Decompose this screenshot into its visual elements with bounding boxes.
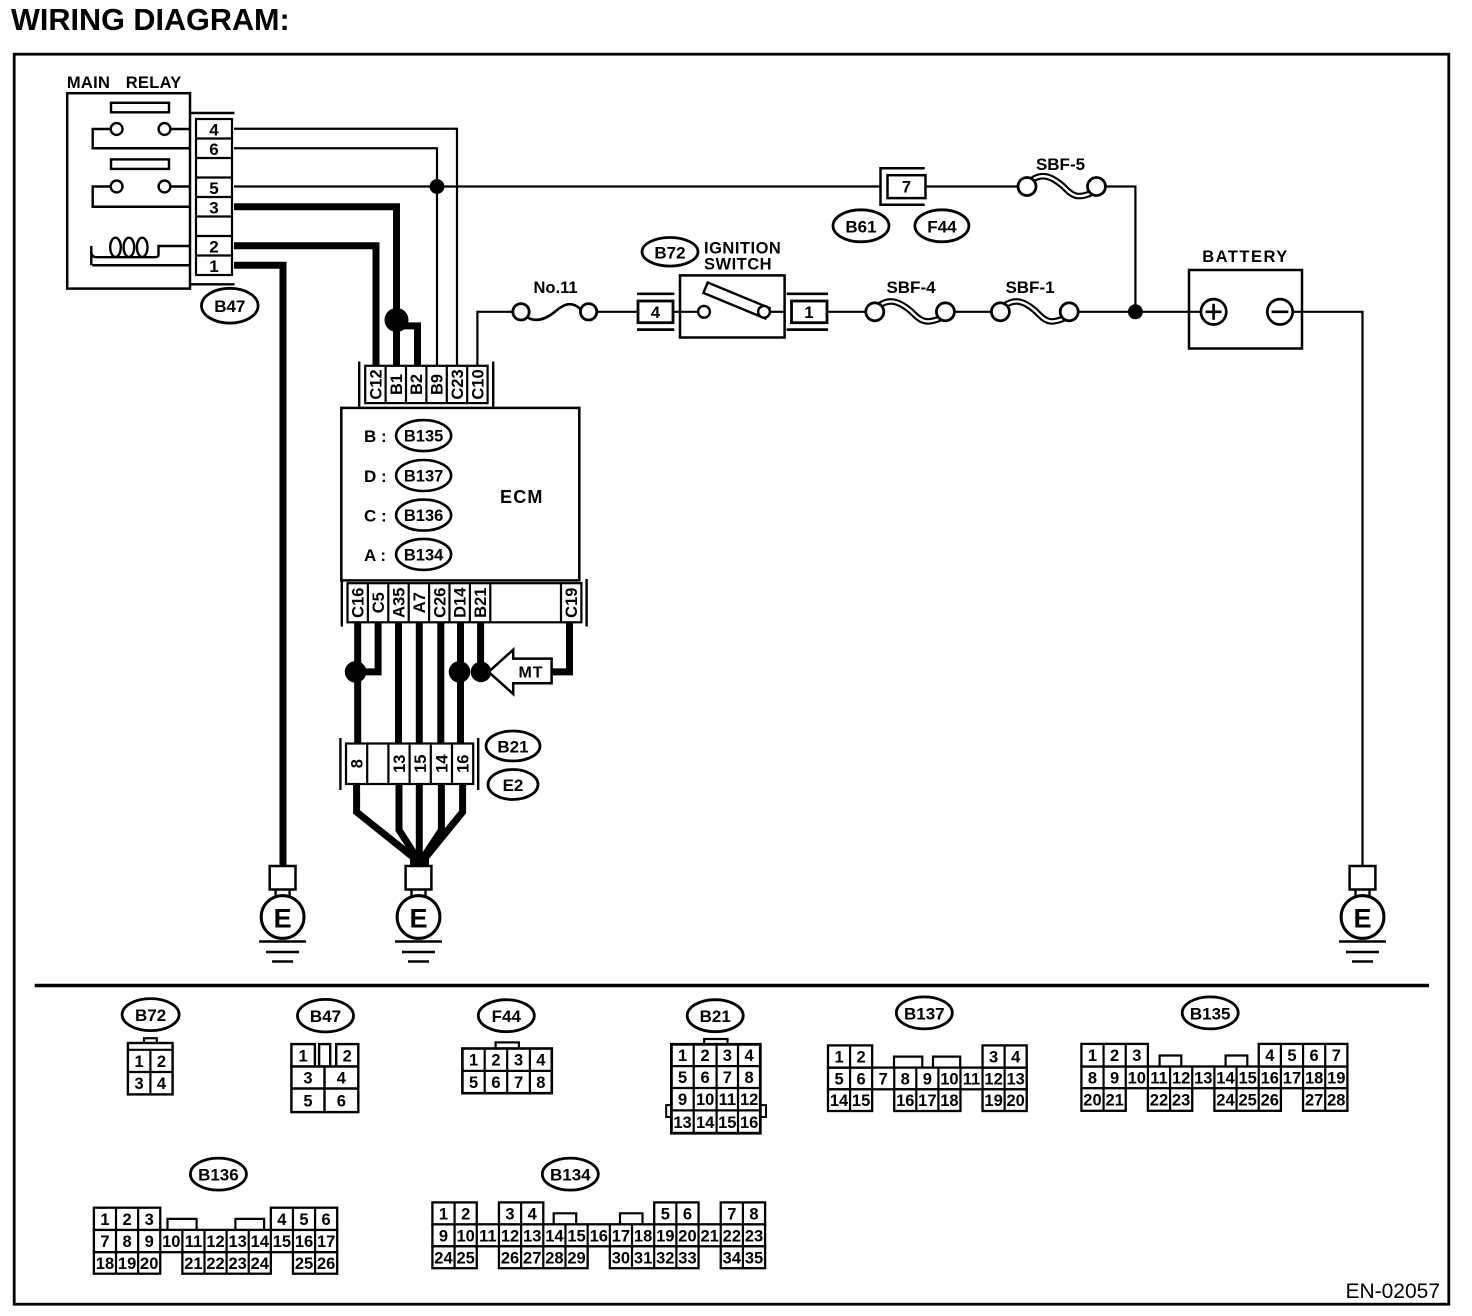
svg-text:20: 20 (140, 1255, 158, 1273)
svg-text:12: 12 (501, 1227, 519, 1245)
svg-text:19: 19 (984, 1092, 1002, 1110)
svg-text:2: 2 (209, 237, 218, 256)
ECM connector ref C : B136 (364, 500, 451, 531)
wire ignition switch to SBF-4 (828, 311, 866, 313)
svg-text:8: 8 (749, 1205, 758, 1223)
connector label B21 (486, 731, 540, 761)
svg-text:11: 11 (1150, 1069, 1167, 1087)
svg-text:B :: B : (364, 427, 387, 446)
svg-text:C5: C5 (370, 592, 388, 613)
svg-text:22: 22 (1150, 1092, 1168, 1110)
fuse 7 holder (881, 167, 926, 206)
svg-text:22: 22 (723, 1227, 741, 1245)
svg-text:21: 21 (1105, 1092, 1123, 1110)
svg-text:MT: MT (518, 664, 543, 681)
svg-text:9: 9 (678, 1091, 687, 1109)
junction D14 (449, 661, 471, 683)
svg-text:13: 13 (673, 1114, 691, 1132)
connector B135 pinout (1081, 1044, 1347, 1111)
svg-text:10: 10 (162, 1233, 180, 1251)
svg-text:B21: B21 (700, 1007, 731, 1026)
wire E2 pin 14 to ground (423, 784, 441, 866)
wire relay pin 3 to ECM B1 (234, 207, 397, 366)
svg-text:19: 19 (1327, 1069, 1345, 1087)
svg-text:27: 27 (523, 1249, 541, 1267)
svg-text:4: 4 (157, 1075, 167, 1093)
battery box (1189, 270, 1302, 349)
wire fuse No.11 to ignition switch pin 4 (597, 311, 680, 313)
svg-text:24: 24 (251, 1255, 270, 1273)
svg-text:4: 4 (209, 120, 219, 139)
svg-text:B61: B61 (845, 217, 876, 236)
svg-text:10: 10 (456, 1227, 474, 1245)
svg-text:C19: C19 (563, 588, 581, 618)
svg-text:B136: B136 (404, 507, 443, 525)
svg-text:3: 3 (135, 1075, 144, 1093)
svg-text:16: 16 (896, 1092, 914, 1110)
svg-text:26: 26 (317, 1255, 335, 1273)
svg-text:16: 16 (455, 755, 473, 773)
connector F44 pinout (462, 1042, 551, 1093)
svg-text:D14: D14 (452, 587, 470, 618)
junction B21 (471, 662, 492, 683)
svg-text:1: 1 (439, 1205, 448, 1223)
svg-text:3: 3 (303, 1070, 312, 1088)
relay contact bar 2 (111, 159, 169, 169)
connector B137 pinout (828, 1045, 1027, 1111)
svg-text:15: 15 (567, 1227, 585, 1245)
wire ECM C5 to junction (355, 622, 378, 672)
connector label F44 (pinout) (478, 1000, 534, 1032)
separator line (35, 984, 1429, 987)
svg-text:C16: C16 (350, 588, 368, 618)
svg-text:14: 14 (830, 1092, 849, 1110)
wire SBF-4 to SBF-1 (954, 311, 991, 313)
svg-text:B134: B134 (404, 546, 444, 564)
svg-text:11: 11 (963, 1070, 980, 1088)
svg-text:12: 12 (740, 1091, 758, 1109)
svg-text:9: 9 (145, 1233, 154, 1251)
ECM connector ref A : B134 (364, 539, 451, 570)
svg-text:B21: B21 (472, 588, 490, 618)
relay contact b1 (111, 181, 123, 193)
svg-text:5: 5 (209, 179, 218, 198)
svg-text:20: 20 (678, 1227, 696, 1245)
svg-text:27: 27 (1305, 1092, 1323, 1110)
svg-text:2: 2 (461, 1205, 470, 1223)
connector label B134 (pinout) (542, 1158, 598, 1190)
svg-text:19: 19 (656, 1227, 674, 1245)
svg-text:21: 21 (700, 1227, 718, 1245)
connector label B61 (833, 210, 889, 242)
svg-text:C10: C10 (469, 369, 487, 399)
svg-text:1: 1 (135, 1053, 144, 1071)
svg-text:10: 10 (1128, 1069, 1146, 1087)
svg-text:26: 26 (501, 1249, 519, 1267)
svg-text:5: 5 (469, 1074, 478, 1092)
svg-text:SBF-5: SBF-5 (1036, 155, 1085, 174)
svg-text:MAIN: MAIN (67, 74, 110, 92)
battery positive terminal (1201, 299, 1226, 324)
svg-text:5: 5 (661, 1205, 670, 1223)
svg-text:29: 29 (567, 1249, 585, 1267)
svg-text:1: 1 (834, 1049, 843, 1067)
svg-text:RELAY: RELAY (126, 74, 182, 92)
svg-text:7: 7 (723, 1069, 732, 1087)
wire relay contact b2 to pin 5 (170, 185, 190, 187)
svg-text:C23: C23 (449, 369, 467, 399)
svg-text:25: 25 (1238, 1092, 1256, 1110)
wire ECM C26 to E2 pin 14 (437, 622, 444, 743)
svg-text:14: 14 (545, 1227, 564, 1245)
ignition switch connector pin 1 (787, 294, 828, 330)
connector label B47 (pinout) (298, 999, 354, 1032)
svg-text:2: 2 (857, 1049, 866, 1067)
svg-text:2: 2 (343, 1047, 352, 1065)
svg-text:28: 28 (1327, 1092, 1345, 1110)
svg-text:8: 8 (349, 759, 367, 768)
svg-text:10: 10 (940, 1070, 958, 1088)
svg-text:16: 16 (590, 1227, 608, 1245)
fuse SBF-5 (1018, 176, 1106, 196)
svg-text:26: 26 (1261, 1092, 1279, 1110)
svg-text:1: 1 (299, 1047, 308, 1065)
svg-text:18: 18 (1305, 1069, 1323, 1087)
junction C16/C5 (345, 661, 367, 683)
connector label B72 (pinout) (122, 999, 179, 1031)
junction B1/B2 (385, 308, 409, 332)
svg-text:23: 23 (1172, 1092, 1190, 1110)
svg-text:7: 7 (100, 1233, 109, 1251)
svg-text:B21: B21 (497, 738, 528, 757)
svg-text:6: 6 (683, 1205, 692, 1223)
wire relay pin 6 down (234, 148, 437, 186)
svg-text:B135: B135 (1190, 1004, 1231, 1023)
wire E2 pin 8 to ground (357, 784, 414, 866)
svg-text:B136: B136 (198, 1166, 239, 1185)
wire relay coil to pin 1 (92, 264, 190, 266)
wire ECM D14 to E2 pin 16 (457, 622, 464, 743)
wire ECM C10 to fuse No.11 (477, 312, 512, 366)
connector B21 pinout (666, 1039, 766, 1133)
svg-text:SWITCH: SWITCH (704, 256, 772, 274)
svg-text:B135: B135 (404, 428, 443, 446)
wire relay pin 2 to ECM C12 (234, 246, 376, 366)
wire ECM A35 to E2 pin 13 (395, 622, 402, 743)
wire SBF-5 to junction (1105, 187, 1136, 312)
svg-text:6: 6 (1310, 1047, 1319, 1065)
svg-text:4: 4 (1011, 1049, 1021, 1067)
svg-text:4: 4 (651, 304, 661, 322)
svg-text:15: 15 (718, 1114, 736, 1132)
svg-text:3: 3 (1132, 1047, 1141, 1065)
connector B47 pin strip (191, 113, 235, 284)
svg-text:2: 2 (1110, 1047, 1119, 1065)
ground E (left) (259, 866, 306, 962)
svg-text:31: 31 (634, 1249, 652, 1267)
svg-text:14: 14 (1216, 1069, 1235, 1087)
svg-text:B72: B72 (135, 1006, 166, 1025)
svg-text:18: 18 (940, 1092, 958, 1110)
connector label F44 (915, 210, 969, 242)
svg-text:15: 15 (412, 755, 430, 773)
svg-text:A :: A : (364, 546, 386, 565)
svg-text:7: 7 (879, 1070, 888, 1088)
svg-text:SBF-1: SBF-1 (1005, 278, 1054, 297)
wire junction to ECM B9 (436, 187, 438, 366)
svg-text:17: 17 (918, 1092, 936, 1110)
wire relay pin 5 to fuse 7 (234, 185, 881, 187)
svg-text:B1: B1 (388, 374, 406, 395)
svg-text:18: 18 (96, 1255, 114, 1273)
svg-text:6: 6 (857, 1070, 866, 1088)
svg-text:15: 15 (1238, 1069, 1256, 1087)
svg-text:E: E (274, 904, 292, 934)
svg-text:B9: B9 (429, 374, 447, 395)
svg-text:4: 4 (277, 1211, 287, 1229)
svg-text:6: 6 (209, 140, 218, 159)
svg-text:12: 12 (984, 1070, 1002, 1088)
svg-text:19: 19 (118, 1255, 136, 1273)
ground E (right) (1339, 866, 1386, 962)
svg-text:8: 8 (536, 1074, 545, 1092)
svg-text:2: 2 (122, 1211, 131, 1229)
relay contact bar 1 (111, 103, 169, 113)
ECM connector ref D : B137 (364, 460, 451, 491)
svg-text:24: 24 (434, 1249, 453, 1267)
fuse No.11 (513, 304, 597, 320)
svg-text:EN-02057: EN-02057 (1345, 1280, 1440, 1303)
ECM top connector C12 B1 B2 B9 C23 C10 (359, 362, 493, 407)
svg-text:C26: C26 (431, 588, 449, 618)
relay coil (91, 238, 190, 266)
svg-text:28: 28 (545, 1249, 563, 1267)
svg-text:16: 16 (295, 1233, 313, 1251)
svg-text:4: 4 (536, 1052, 546, 1070)
svg-text:6: 6 (701, 1069, 710, 1087)
svg-text:B72: B72 (654, 243, 685, 262)
svg-text:13: 13 (391, 755, 409, 773)
svg-text:24: 24 (1216, 1092, 1235, 1110)
svg-text:BATTERY: BATTERY (1202, 248, 1289, 266)
ground E (middle) (395, 866, 442, 962)
svg-text:25: 25 (295, 1255, 313, 1273)
svg-text:11: 11 (479, 1227, 496, 1245)
svg-text:A35: A35 (391, 588, 409, 618)
svg-text:8: 8 (122, 1233, 131, 1251)
ECM connector ref B : B135 (364, 420, 451, 451)
svg-text:7: 7 (902, 179, 911, 197)
relay contact b2 (159, 181, 171, 193)
svg-text:1: 1 (678, 1047, 687, 1065)
svg-text:A7: A7 (411, 592, 429, 613)
svg-text:1: 1 (469, 1052, 478, 1070)
svg-text:9: 9 (439, 1227, 448, 1245)
connector B134 pinout (432, 1202, 765, 1268)
svg-text:35: 35 (745, 1249, 763, 1267)
svg-text:5: 5 (678, 1069, 687, 1087)
svg-text:15: 15 (273, 1233, 291, 1251)
wire ECM B21 down (477, 622, 484, 672)
svg-text:13: 13 (1006, 1070, 1024, 1088)
svg-text:ECM: ECM (500, 487, 544, 507)
wire relay contact b1 to pin 3 (93, 187, 190, 207)
wire ECM C19 to MT arrow (552, 622, 570, 672)
svg-text:9: 9 (1110, 1069, 1119, 1087)
wire ECM A7 to E2 pin 15 (416, 622, 423, 743)
ignition switch SW1 (680, 275, 785, 337)
svg-text:20: 20 (1006, 1092, 1024, 1110)
relay contact a2 (159, 123, 171, 135)
svg-text:B2: B2 (408, 374, 426, 395)
wire junction to ECM B2 (397, 326, 418, 366)
wire relay pin 4 to ECM C23 (234, 129, 457, 366)
wire SBF-1 to battery (1078, 311, 1201, 313)
svg-text:C :: C : (364, 507, 387, 526)
wire fuse 7 to SBF-5 (926, 185, 1020, 187)
svg-text:8: 8 (901, 1070, 910, 1088)
svg-text:3: 3 (989, 1049, 998, 1067)
wire E2 pin 13 to ground (399, 784, 417, 866)
ECM box (341, 408, 579, 581)
connector label B72 (642, 238, 698, 267)
svg-text:3: 3 (514, 1052, 523, 1070)
svg-text:4: 4 (745, 1047, 755, 1065)
wire ECM C16 to E2 pin 8 (354, 622, 361, 743)
svg-text:3: 3 (505, 1205, 514, 1223)
svg-text:6: 6 (491, 1074, 500, 1092)
svg-text:SBF-4: SBF-4 (886, 278, 936, 297)
ECM bottom connector C16 C5 A35 A7 C26 D14 B21 C19 (342, 579, 587, 627)
svg-text:B47: B47 (310, 1007, 341, 1026)
connector B136 pinout (94, 1208, 337, 1274)
wire E2 pin 16 to ground (426, 784, 463, 866)
svg-text:1: 1 (804, 304, 813, 322)
svg-text:WIRING DIAGRAM:: WIRING DIAGRAM: (11, 3, 290, 37)
svg-text:2: 2 (157, 1053, 166, 1071)
svg-text:3: 3 (209, 198, 218, 217)
junction pin5/pin6/B9 (430, 179, 445, 194)
svg-text:4: 4 (337, 1070, 347, 1088)
wire relay contact a2 to pin 4 (170, 128, 190, 130)
svg-text:D :: D : (364, 467, 387, 486)
svg-text:12: 12 (1172, 1069, 1190, 1087)
connector B47 pinout (291, 1044, 358, 1112)
svg-text:5: 5 (1287, 1047, 1296, 1065)
svg-text:F44: F44 (492, 1007, 522, 1026)
junction battery feed (1128, 304, 1143, 319)
svg-text:3: 3 (723, 1047, 732, 1065)
svg-text:E: E (409, 904, 427, 934)
svg-text:23: 23 (745, 1227, 763, 1245)
svg-text:E2: E2 (503, 776, 524, 795)
connector label E2 (488, 770, 538, 800)
svg-text:32: 32 (656, 1249, 674, 1267)
main relay box (67, 93, 190, 288)
svg-text:17: 17 (1283, 1069, 1301, 1087)
connector label B47 (202, 288, 259, 323)
svg-text:16: 16 (1261, 1069, 1279, 1087)
svg-text:11: 11 (719, 1091, 736, 1109)
svg-text:4: 4 (528, 1205, 538, 1223)
svg-text:F44: F44 (927, 217, 957, 236)
svg-text:B137: B137 (904, 1004, 945, 1023)
svg-text:14: 14 (433, 754, 451, 773)
connector label B135 (pinout) (1182, 997, 1238, 1029)
fuse SBF-4 (866, 301, 955, 321)
svg-text:7: 7 (727, 1205, 736, 1223)
svg-text:2: 2 (491, 1052, 500, 1070)
svg-text:12: 12 (206, 1233, 224, 1251)
svg-text:11: 11 (185, 1233, 202, 1251)
wire relay contact a1 to pin 6 (93, 129, 190, 148)
svg-text:34: 34 (723, 1249, 742, 1267)
svg-text:5: 5 (299, 1211, 308, 1229)
svg-text:13: 13 (523, 1227, 541, 1245)
svg-text:5: 5 (834, 1070, 843, 1088)
svg-text:3: 3 (145, 1211, 154, 1229)
svg-text:13: 13 (1194, 1069, 1212, 1087)
connector label B136 (pinout) (190, 1158, 246, 1190)
fuse SBF-1 (991, 301, 1078, 321)
svg-text:21: 21 (184, 1255, 202, 1273)
svg-text:E: E (1353, 904, 1371, 934)
svg-text:9: 9 (923, 1070, 932, 1088)
svg-text:14: 14 (251, 1233, 270, 1251)
svg-text:8: 8 (745, 1069, 754, 1087)
svg-text:6: 6 (337, 1092, 346, 1110)
svg-text:C12: C12 (367, 369, 385, 399)
svg-text:4: 4 (1265, 1047, 1275, 1065)
svg-text:1: 1 (209, 257, 218, 276)
svg-text:1: 1 (100, 1211, 109, 1229)
svg-text:1: 1 (1088, 1047, 1097, 1065)
battery negative terminal (1267, 299, 1292, 324)
svg-text:22: 22 (206, 1255, 224, 1273)
wire relay pin 1 to ground E (234, 265, 283, 866)
svg-text:33: 33 (678, 1249, 696, 1267)
svg-text:16: 16 (740, 1114, 758, 1132)
svg-text:2: 2 (701, 1047, 710, 1065)
svg-text:8: 8 (1088, 1069, 1097, 1087)
relay contact a1 (111, 123, 123, 135)
wire battery negative to ground E (1293, 312, 1363, 866)
svg-text:B134: B134 (550, 1166, 591, 1185)
svg-text:25: 25 (456, 1249, 474, 1267)
svg-text:B47: B47 (214, 297, 245, 316)
svg-text:6: 6 (322, 1211, 331, 1229)
wire E2 pin 15 to ground (416, 784, 423, 866)
connector label B21 (pinout) (687, 1000, 743, 1032)
svg-text:No.11: No.11 (533, 279, 577, 297)
svg-text:15: 15 (852, 1092, 870, 1110)
MT arrow (489, 650, 552, 694)
svg-text:18: 18 (634, 1227, 652, 1245)
connector label B137 (pinout) (896, 997, 952, 1029)
ignition switch connector pin 4 (637, 294, 674, 330)
svg-text:7: 7 (1332, 1047, 1341, 1065)
svg-text:17: 17 (317, 1233, 335, 1251)
svg-text:14: 14 (696, 1114, 715, 1132)
svg-text:30: 30 (612, 1249, 630, 1267)
svg-text:7: 7 (514, 1074, 523, 1092)
svg-text:10: 10 (696, 1091, 714, 1109)
connector B72 pinout (128, 1038, 173, 1094)
svg-text:B137: B137 (404, 468, 443, 486)
connector B21/E2 pin strip 8 13 15 14 16 (340, 738, 478, 790)
svg-text:17: 17 (612, 1227, 630, 1245)
svg-text:13: 13 (228, 1233, 246, 1251)
